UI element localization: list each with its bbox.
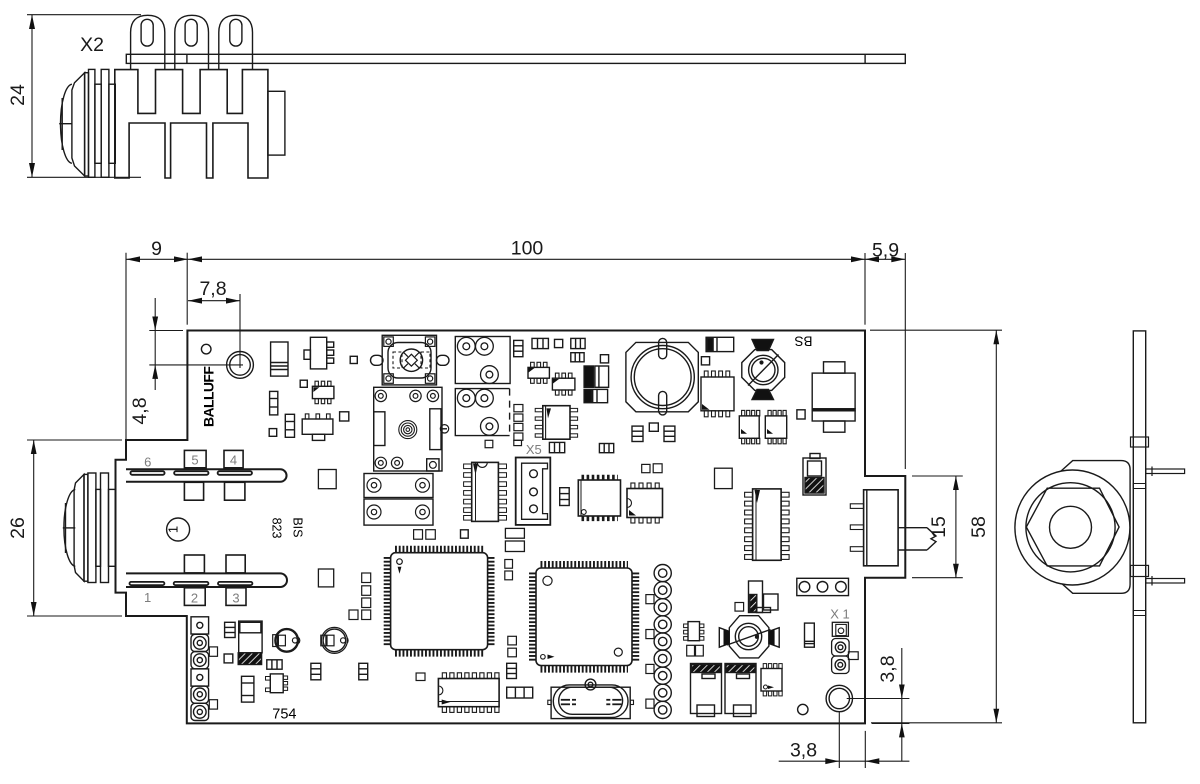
- IC U8 soic14: [464, 462, 507, 521]
- capacitor C1: [271, 342, 288, 376]
- svg-text:X2: X2: [80, 34, 104, 56]
- tantalum capacitor C6: [584, 366, 609, 387]
- capacitor C20: [267, 660, 282, 669]
- capacitor C23: [359, 663, 368, 680]
- IC U16 soic16 bottom: [438, 673, 499, 713]
- pad square pair: [414, 530, 436, 540]
- IC U13 qfp100: [532, 564, 635, 669]
- end view: center hole: [1050, 506, 1092, 548]
- inductor L2: [719, 616, 779, 658]
- capacitor C24: [508, 636, 517, 657]
- capacitor C11: [664, 426, 675, 441]
- pad square: [416, 673, 425, 681]
- svg-text:9: 9: [151, 238, 162, 260]
- crystal Y1: [548, 679, 634, 719]
- capacitor C17: [805, 623, 815, 647]
- top slot pad strips: [130, 471, 252, 475]
- svg-text:5: 5: [191, 453, 198, 468]
- tantalum capacitor C14: [803, 454, 826, 496]
- X2 solder tab 3: [219, 15, 253, 69]
- X2 solder tab 2: [175, 15, 209, 69]
- svg-text:X 1: X 1: [830, 607, 850, 622]
- electrolytic capacitor C27: [725, 664, 756, 717]
- svg-text:X5: X5: [526, 442, 542, 457]
- capacitor C10: [632, 426, 643, 441]
- terminal block TB2: [364, 499, 433, 525]
- mounting hole top-left: [227, 352, 254, 379]
- electrolytic capacitor C19: [238, 621, 262, 664]
- svg-text:15: 15: [928, 516, 950, 538]
- dimension 100: [188, 238, 865, 325]
- relay K1: [374, 387, 449, 471]
- connector footprint: top slot: [126, 469, 287, 482]
- transistor Q4 to-can: [321, 627, 348, 653]
- svg-text:26: 26: [7, 517, 29, 539]
- capacitor C5: [571, 353, 584, 362]
- board outline: [116, 331, 906, 724]
- voltage regulator U5: [812, 362, 855, 432]
- svg-text:24: 24: [7, 84, 29, 106]
- svg-text:4: 4: [230, 453, 237, 468]
- pad square: [300, 380, 307, 387]
- terminal block TB1: [364, 474, 433, 498]
- svg-text:2: 2: [191, 591, 198, 606]
- end view: PCB edge plate: [1131, 331, 1149, 723]
- svg-text:7,8: 7,8: [199, 278, 226, 300]
- IC U7: [765, 410, 786, 443]
- connector X2 side view: rings: [59, 69, 115, 177]
- IC U9 soic16: [578, 477, 620, 519]
- fiducial circle: [201, 344, 211, 354]
- dimension 9: [126, 238, 905, 439]
- pad square: [701, 357, 709, 365]
- dimension 58: [870, 330, 1002, 723]
- dimension 3,8 vertical: [847, 648, 910, 761]
- pad squares row 1: [184, 450, 243, 467]
- capacitor C18: [225, 622, 236, 637]
- pad squares row 4: [184, 588, 246, 606]
- bottom slot pad strips: [130, 582, 253, 585]
- transistor Q2: [302, 414, 333, 441]
- svg-text:823: 823: [270, 518, 284, 539]
- capacitor C2: [514, 340, 523, 356]
- connector X1: [832, 622, 859, 673]
- capacitor C3: [532, 338, 548, 348]
- IC U18 soic8: [535, 406, 577, 440]
- pad squares row 3: [184, 555, 245, 573]
- IC U1 sot23-6: [312, 381, 334, 404]
- dimension 7,8: [188, 278, 240, 368]
- capacitor C12: [549, 442, 564, 452]
- svg-text:58: 58: [968, 516, 990, 538]
- pin header J1 column: [646, 565, 671, 719]
- pad strip 3 holes: [797, 578, 849, 595]
- IC U17 soic8: [761, 664, 782, 696]
- IC U10 soic8: [627, 483, 663, 523]
- pin header J2 column: [191, 617, 218, 721]
- resistor R2: [285, 414, 294, 437]
- capacitor C4: [571, 338, 585, 348]
- transistor Q1: [304, 337, 334, 369]
- pin labels 6 5 4 / 1 2 3: [144, 453, 240, 606]
- IC U3: [552, 373, 575, 395]
- end view: hex nut: [1026, 488, 1119, 566]
- pad square mid-left: [318, 470, 336, 489]
- IC U6: [739, 410, 760, 443]
- X2 body side lug: [268, 91, 285, 155]
- svg-text:3,8: 3,8: [790, 740, 817, 762]
- pad rect pair: [505, 528, 524, 551]
- pad squares above X5: [485, 440, 521, 447]
- pad square: [350, 356, 357, 363]
- inductor L1: [742, 339, 785, 399]
- svg-text:6: 6: [144, 455, 151, 470]
- svg-text:1: 1: [165, 526, 180, 533]
- electrolytic capacitor C26: [691, 664, 722, 717]
- transistor Q3 to-can: [273, 629, 300, 652]
- pad square: [340, 412, 349, 421]
- capacitor C25: [507, 663, 517, 678]
- svg-text:1: 1: [144, 590, 151, 605]
- svg-text:5,9: 5,9: [872, 240, 899, 262]
- pad square column: [349, 573, 371, 620]
- pad square: [269, 429, 277, 437]
- tantalum capacitor C16: [749, 581, 779, 613]
- svg-text:100: 100: [511, 238, 544, 260]
- pad circle: [798, 704, 808, 714]
- svg-text:BALLUFF: BALLUFF: [201, 366, 217, 427]
- svg-text:4,8: 4,8: [129, 397, 151, 424]
- transformer T2: [455, 389, 509, 436]
- node circle 1: [165, 518, 189, 541]
- transformer T1: [455, 337, 510, 384]
- pad square: [224, 654, 233, 663]
- dimension 3,8 horizontal: [779, 712, 910, 768]
- IC U11 ssop16: [745, 489, 790, 560]
- pad square: [555, 339, 563, 347]
- PCB edge-on bar (side view of board): [126, 54, 905, 63]
- IC U15 sot89: [266, 674, 288, 693]
- svg-text:3: 3: [232, 591, 239, 606]
- mounting hole bottom-right: [826, 685, 852, 711]
- end view: solder pins: [1146, 467, 1185, 586]
- IC U12 qfp100: [387, 549, 491, 653]
- dimension 24 (side view height): [7, 15, 141, 178]
- IC U2: [528, 362, 549, 383]
- IC U14 sot23-6: [684, 622, 704, 641]
- capacitor C22: [311, 663, 321, 680]
- resistor R1: [270, 391, 278, 415]
- capacitor C13: [599, 444, 613, 453]
- svg-text:BIS: BIS: [291, 517, 305, 537]
- electrolytic capacitor C8: [626, 338, 698, 415]
- pad square: [735, 603, 744, 612]
- end view: connector body silhouette: [1056, 461, 1131, 594]
- pad square column mid: [514, 405, 523, 441]
- connector footprint: bottom slot: [126, 573, 287, 587]
- connector side view on board left (rings): [63, 473, 116, 583]
- IC U4: [701, 371, 734, 417]
- capacitor C9: [706, 337, 734, 351]
- pad square: [600, 355, 608, 363]
- capacitor C21: [242, 676, 254, 702]
- connector X2 body comb: [115, 70, 268, 178]
- pad square: [715, 468, 733, 488]
- connector X5: [516, 458, 551, 525]
- capacitor C28: [560, 488, 570, 506]
- end view: coupling ring circle: [1015, 470, 1130, 585]
- svg-text:3,8: 3,8: [877, 655, 899, 682]
- dimension 4,8: [129, 298, 243, 425]
- pad squares row 2: [184, 482, 245, 500]
- capacitor C15: [687, 645, 704, 656]
- svg-text:BS: BS: [794, 334, 812, 349]
- pad square: [649, 423, 658, 431]
- pad square: [461, 530, 469, 538]
- resistor R3: [507, 687, 533, 698]
- X2 solder tab 1: [131, 15, 165, 69]
- pad square mid-left lower: [318, 569, 333, 587]
- svg-text:754: 754: [272, 707, 296, 723]
- dimension 15: [912, 476, 963, 578]
- pad square: [797, 410, 805, 419]
- trimmer TR1: [371, 335, 450, 385]
- dimension 26: [7, 440, 122, 616]
- connector X4 on right tab: [850, 490, 936, 566]
- pad square pair: [642, 464, 662, 473]
- end view: thread circle: [1026, 483, 1115, 572]
- pad square pair: [505, 560, 513, 580]
- tantalum capacitor C7: [584, 389, 608, 402]
- dimension 5,9: [865, 240, 905, 470]
